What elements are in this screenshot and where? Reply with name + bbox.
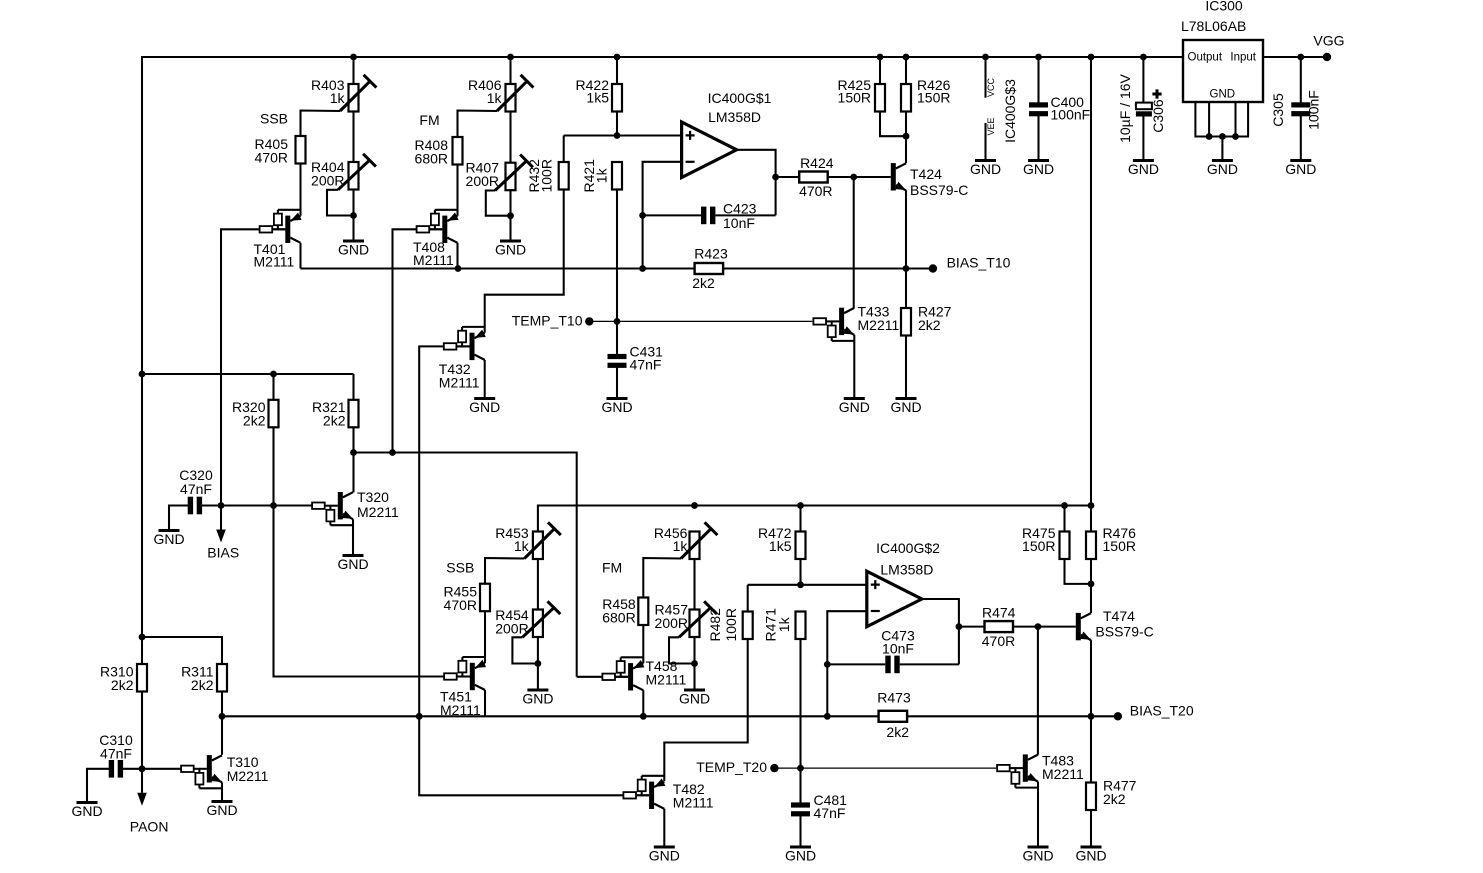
capacitor C320 47nF	[169, 506, 188, 531]
wire R482 to T482 emitter	[664, 639, 747, 781]
wire T433 emitter to ground	[853, 335, 855, 398]
wire TEMP_T20 net	[774, 767, 800, 769]
ground under T310	[212, 800, 233, 803]
wire T408 collector down	[456, 243, 458, 269]
ground at C320	[159, 529, 180, 532]
svg-text:L78L06AB: L78L06AB	[1181, 18, 1246, 34]
resistor R421 1k	[612, 162, 622, 190]
svg-text:47nF: 47nF	[630, 356, 662, 372]
wire R404 to ground	[350, 212, 357, 219]
wire node down to T451 base	[274, 506, 445, 677]
wire R403 column from bus	[350, 54, 357, 61]
svg-text:150R: 150R	[1022, 538, 1055, 554]
power pins IC400G$3 VEE	[984, 123, 986, 160]
voltage regulator IC300 L78L06AB	[1183, 40, 1263, 102]
svg-text:GND: GND	[1128, 161, 1159, 177]
node BIAS_T20	[1114, 712, 1122, 720]
wire R422 to noninverting input node	[616, 112, 618, 136]
wire R471 down to TEMP_T20 node	[799, 639, 801, 768]
wire R455 to T451 emitter	[484, 611, 486, 663]
wire R403 wiper to R405	[301, 111, 341, 137]
ground under C400	[1028, 159, 1049, 162]
trimmer R453 1k	[533, 532, 543, 560]
svg-text:VGG: VGG	[1313, 33, 1344, 49]
wire T401 base to BIAS node	[272, 228, 285, 230]
wire R477 to ground	[1090, 810, 1092, 847]
ground under T433	[844, 397, 865, 400]
svg-text:470R: 470R	[799, 183, 832, 199]
svg-text:1k: 1k	[594, 167, 610, 183]
svg-text:200R: 200R	[466, 173, 499, 189]
svg-text:GND: GND	[522, 691, 553, 707]
op-amp U2 IC400G$2 LM358D	[867, 571, 922, 627]
wire R408 to T408 emitter	[456, 165, 458, 216]
svg-text:GND: GND	[1022, 848, 1053, 864]
trimmer R456 1k	[690, 532, 700, 560]
wire bus drop to lower half	[1088, 54, 1095, 61]
resistor R477 2k2	[1086, 783, 1096, 811]
transistor T482 M2111	[642, 775, 665, 777]
wire op-amp1 + input line	[564, 134, 682, 136]
resistor R425 150R	[877, 54, 884, 61]
wire T483 base from TEMP_T20	[1010, 767, 1023, 769]
power pins IC400G$3 VCC	[982, 54, 989, 61]
transistor T408 M2111	[435, 209, 458, 211]
ground under R477	[1081, 846, 1102, 849]
transistor T310 M2211	[199, 787, 222, 789]
svg-text:680R: 680R	[602, 610, 635, 626]
svg-text:GND: GND	[337, 556, 368, 572]
svg-text:T474: T474	[1103, 608, 1135, 624]
svg-text:10nF: 10nF	[882, 641, 914, 657]
trimmer R457 200R	[690, 610, 700, 638]
transistor T474 BSS79-C	[1076, 613, 1081, 640]
ground under T483	[1028, 846, 1049, 849]
wire BIAS_T20 net	[222, 715, 878, 717]
svg-text:LM358D: LM358D	[880, 562, 933, 578]
resistor R432 100R	[559, 162, 569, 190]
svg-text:GND: GND	[153, 531, 184, 547]
wire T458 base from drop	[615, 676, 628, 678]
capacitor C423 10nF	[643, 214, 701, 216]
wire mirror line to T458 base drop	[354, 453, 577, 677]
svg-text:VEE: VEE	[986, 117, 996, 135]
svg-text:1k5: 1k5	[769, 538, 792, 554]
ground under C305	[1290, 159, 1311, 162]
svg-text:GND: GND	[649, 848, 680, 864]
wire: VGG top supply bus	[142, 57, 1183, 769]
wire R475/R476 to T474 collector	[1065, 559, 1092, 584]
trimmer R403 1k	[349, 84, 359, 112]
trimmer R407 200R	[506, 163, 516, 191]
wire to R432	[563, 136, 565, 163]
svg-text:IC400G$2: IC400G$2	[876, 540, 940, 556]
wire R432 to T432 emitter	[485, 190, 564, 333]
svg-text:Input: Input	[1230, 52, 1256, 64]
transistor T451 M2111	[462, 656, 485, 658]
wire op-amp1 output	[737, 150, 776, 216]
svg-text:M2211: M2211	[1042, 766, 1084, 782]
svg-text:100nF: 100nF	[1051, 107, 1091, 123]
svg-text:M2111: M2111	[673, 795, 714, 811]
svg-text:M2211: M2211	[357, 504, 399, 520]
capacitor C481 47nF	[799, 768, 801, 803]
svg-text:GND: GND	[206, 802, 237, 818]
wire T451 base from mirror node	[457, 675, 470, 677]
svg-text:IC300: IC300	[1205, 0, 1243, 14]
wire R456 wiper to R458	[643, 558, 681, 598]
svg-text:100R: 100R	[723, 608, 739, 641]
resistor R455 470R	[480, 584, 490, 612]
transistor T458 M2111	[621, 656, 644, 658]
capacitor C400 100nF	[1035, 54, 1042, 61]
svg-text:LM358D: LM358D	[708, 109, 761, 125]
svg-text:BIAS_T10: BIAS_T10	[947, 255, 1011, 271]
svg-text:GND: GND	[338, 242, 369, 258]
svg-text:1k: 1k	[776, 616, 792, 632]
svg-text:100R: 100R	[539, 159, 555, 192]
svg-text:GND: GND	[601, 399, 632, 415]
svg-text:2k2: 2k2	[111, 677, 134, 693]
transistor T401 M2111	[278, 209, 301, 211]
node VGG	[1323, 53, 1331, 61]
resistor R458 680R	[638, 598, 648, 626]
ground under R404	[343, 240, 364, 243]
wire R453-R454	[537, 559, 539, 610]
wire R454 to ground	[535, 660, 542, 667]
wire op-amp2 + input line	[748, 584, 867, 586]
wire R424 junction to T433 collector	[850, 174, 857, 181]
svg-text:GND: GND	[890, 399, 921, 415]
node BIAS_T10	[929, 264, 937, 272]
svg-text:C306: C306	[1150, 99, 1166, 133]
resistor R408 680R	[453, 137, 463, 165]
wire TEMP_T10 net	[589, 320, 617, 322]
ground at C310	[77, 801, 98, 804]
svg-text:10nF: 10nF	[723, 215, 755, 231]
wire R404 wiper hook to bottom pin	[327, 190, 354, 216]
wire T458 collector down	[642, 690, 644, 716]
svg-text:GND: GND	[71, 803, 102, 819]
wire R407 wiper hook	[486, 191, 511, 216]
svg-text:R473: R473	[877, 690, 911, 706]
svg-text:GND: GND	[495, 242, 526, 258]
svg-text:150R: 150R	[1103, 538, 1136, 554]
svg-text:GND: GND	[1285, 161, 1316, 177]
resistor R424 470R	[776, 176, 800, 178]
svg-text:BIAS_T20: BIAS_T20	[1130, 703, 1194, 719]
wire T401 collector down	[299, 243, 301, 269]
resistor R471 1k	[796, 612, 806, 640]
wire R453 wiper to R455	[485, 558, 524, 584]
wire R472 to + input node	[799, 559, 801, 585]
ground under R427	[896, 397, 917, 400]
transistor T424 BSS79-C	[891, 163, 896, 190]
svg-text:1k: 1k	[673, 538, 689, 554]
svg-text:M2211: M2211	[227, 768, 269, 784]
ground under IC300	[1212, 159, 1233, 162]
transistor T320 M2211	[330, 524, 353, 526]
wire R425/R426 to T424 collector	[880, 112, 906, 137]
node PAON arrow	[141, 769, 143, 793]
svg-text:M2111: M2111	[439, 375, 480, 391]
wire R407 to ground	[507, 212, 514, 219]
capacitor C305 100nF	[1297, 54, 1304, 61]
resistor R423 2k2	[695, 263, 724, 274]
wire T483 emitter to ground	[1037, 782, 1039, 847]
svg-text:1k5: 1k5	[586, 90, 609, 106]
transistor T483 M2211	[1015, 787, 1038, 789]
wire R458 to T458 emitter	[642, 625, 644, 663]
wire T482 collector to ground	[663, 809, 665, 847]
wire R457 wiper hook	[669, 637, 695, 663]
resistor R475 150R	[1063, 506, 1065, 532]
resistor R482 100R	[743, 612, 753, 640]
ground under T320	[343, 554, 364, 557]
svg-text:Output: Output	[1188, 52, 1223, 64]
wire R310 to PAON node	[141, 692, 143, 769]
ground under R407	[500, 240, 521, 243]
wire T451 collector down	[484, 690, 486, 716]
resistor R321 2k2	[352, 374, 354, 400]
wire R456-R457	[693, 559, 695, 610]
resistor R422 1k5	[612, 84, 622, 112]
svg-text:1k: 1k	[487, 90, 503, 106]
svg-text:200R: 200R	[655, 615, 688, 631]
svg-text:R424: R424	[800, 155, 834, 171]
svg-text:2k2: 2k2	[886, 724, 909, 740]
wire R321 to T320 collector / mirror line	[352, 427, 354, 492]
svg-text:47nF: 47nF	[100, 746, 132, 762]
svg-text:FM: FM	[419, 112, 439, 128]
node TEMP_T10	[585, 317, 593, 325]
wire R427 to ground	[905, 336, 907, 399]
svg-text:150R: 150R	[838, 90, 871, 106]
wire R311 to T310 collector / BIAS_T20 line	[221, 692, 223, 755]
svg-text:IC400G$3: IC400G$3	[1002, 79, 1018, 143]
wire op-amp1 inverting input	[643, 162, 682, 269]
resistor R473 2k2	[879, 711, 908, 722]
wire R421 down to TEMP_T10 node	[616, 190, 618, 322]
wire op-amp2 inverting input	[827, 611, 867, 716]
svg-text:1k: 1k	[514, 538, 530, 554]
ground under R454	[527, 689, 548, 692]
resistor R426 150R	[903, 54, 910, 61]
svg-text:GND: GND	[679, 691, 710, 707]
wire T433 base from TEMP_T10	[826, 320, 839, 322]
svg-text:2k2: 2k2	[918, 317, 941, 333]
wire to R482	[747, 585, 749, 612]
wire T474 emitter to BIAS_T20	[1090, 640, 1092, 716]
resistor R427 2k2	[905, 269, 907, 309]
wire T432 collector to ground	[484, 360, 486, 398]
wire R406 column from bus	[507, 54, 514, 61]
wire R474 junction to T483 collector	[1035, 623, 1042, 630]
resistor R474 470R	[959, 626, 985, 628]
wire IC300 ground pins	[1195, 102, 1248, 137]
wire T424 emitter to BIAS_T10	[905, 190, 907, 268]
ground under C306	[1133, 159, 1154, 162]
node TEMP_T20	[770, 764, 778, 772]
svg-text:BSS79-C: BSS79-C	[910, 182, 968, 198]
svg-text:GND: GND	[1075, 848, 1106, 864]
svg-text:470R: 470R	[982, 633, 1015, 649]
svg-text:200R: 200R	[495, 621, 528, 637]
trimmer R406 1k	[506, 84, 516, 112]
svg-text:150R: 150R	[917, 90, 950, 106]
svg-text:2k2: 2k2	[692, 275, 715, 291]
svg-text:SSB: SSB	[446, 560, 474, 576]
wire R320 bottom to node	[272, 427, 274, 505]
svg-text:TEMP_T20: TEMP_T20	[696, 759, 767, 775]
svg-text:VCC: VCC	[986, 77, 996, 97]
capacitor C306 10uF/16V	[1140, 54, 1147, 61]
svg-text:BSS79-C: BSS79-C	[1095, 624, 1153, 640]
svg-text:BIAS: BIAS	[207, 545, 239, 561]
svg-text:R423: R423	[694, 246, 728, 262]
wire R457 to ground	[691, 660, 698, 667]
trimmer R454 200R	[533, 610, 543, 638]
svg-text:2k2: 2k2	[243, 413, 266, 429]
wire T408 base down to mirror line	[429, 228, 442, 230]
wire BIAS_T10 net	[301, 267, 695, 269]
svg-text:GND: GND	[785, 848, 816, 864]
svg-text:470R: 470R	[255, 150, 288, 166]
wire T482 base from drop	[636, 794, 649, 796]
wire R422 column from bus	[614, 54, 621, 61]
node BIAS arrow	[220, 506, 222, 530]
svg-text:470R: 470R	[444, 597, 477, 613]
svg-text:2k2: 2k2	[191, 677, 214, 693]
svg-text:R482: R482	[707, 608, 723, 642]
svg-text:T424: T424	[910, 166, 942, 182]
svg-text:IC400G$1: IC400G$1	[708, 90, 772, 106]
ground under T482	[654, 846, 675, 849]
transistor T432 M2111	[462, 326, 485, 328]
svg-text:GND: GND	[1207, 161, 1238, 177]
wire lower supply rail	[538, 506, 1091, 532]
ground under IC400G$3	[975, 159, 996, 162]
svg-text:2k2: 2k2	[323, 413, 346, 429]
op-amp U1 IC400G$1 LM358D	[682, 122, 737, 178]
svg-text:M2111: M2111	[254, 254, 295, 270]
svg-text:680R: 680R	[415, 151, 448, 167]
wire T310 emitter to ground	[221, 782, 223, 801]
wire C320 to T320 base	[202, 504, 312, 506]
transistor T433 M2211	[832, 340, 855, 342]
capacitor C310 47nF	[87, 769, 109, 802]
wire T320 emitter to ground	[352, 519, 354, 555]
ground under C431	[607, 397, 628, 400]
wire T432 base down-left	[457, 345, 470, 347]
capacitor C473 10nF	[827, 663, 885, 665]
resistor R472 1k5	[799, 506, 801, 532]
svg-text:200R: 200R	[311, 173, 344, 189]
wire C310 to T310 base	[123, 768, 181, 770]
svg-text:TEMP_T10: TEMP_T10	[512, 312, 583, 328]
svg-text:GND: GND	[469, 399, 500, 415]
svg-text:FM: FM	[602, 560, 622, 576]
svg-text:1k: 1k	[330, 90, 346, 106]
svg-text:PAON: PAON	[130, 819, 169, 835]
wire R406-R407	[509, 112, 511, 163]
svg-text:GND: GND	[1023, 161, 1054, 177]
wire R405 to T401 emitter	[299, 164, 301, 216]
ground under T432	[474, 397, 495, 400]
svg-text:47nF: 47nF	[814, 805, 846, 821]
svg-text:GND: GND	[1210, 89, 1236, 101]
svg-text:100nF: 100nF	[1306, 90, 1322, 130]
svg-text:M2211: M2211	[858, 317, 900, 333]
svg-text:GND: GND	[839, 399, 870, 415]
svg-text:M2111: M2111	[646, 672, 687, 688]
trimmer R404 200R	[349, 162, 359, 190]
capacitor C431 47nF	[616, 321, 618, 354]
resistor R320 2k2	[272, 374, 274, 400]
resistor R311 2k2	[217, 664, 227, 692]
resistor R476 150R	[1090, 506, 1092, 532]
svg-text:GND: GND	[970, 161, 1001, 177]
svg-text:10µF / 16V: 10µF / 16V	[1117, 73, 1133, 142]
svg-text:C305: C305	[1270, 93, 1286, 127]
ground under C481	[790, 846, 811, 849]
wire supply to R310/R311	[139, 634, 146, 641]
wire R403-R404	[352, 112, 354, 163]
svg-text:SSB: SSB	[260, 111, 288, 127]
svg-text:47nF: 47nF	[180, 481, 212, 497]
wire op-amp2 output	[922, 599, 959, 664]
svg-text:R474: R474	[982, 605, 1016, 621]
wire R454 wiper hook	[512, 637, 538, 663]
ground under R457	[684, 689, 705, 692]
wire R406 wiper to R408	[458, 111, 498, 138]
resistor R405 470R	[296, 136, 306, 164]
svg-text:M2111: M2111	[413, 252, 454, 268]
svg-text:T320: T320	[357, 489, 389, 505]
wire supply to R320/R321	[139, 371, 146, 378]
resistor R310 2k2	[137, 664, 147, 692]
svg-text:2k2: 2k2	[1103, 791, 1126, 807]
